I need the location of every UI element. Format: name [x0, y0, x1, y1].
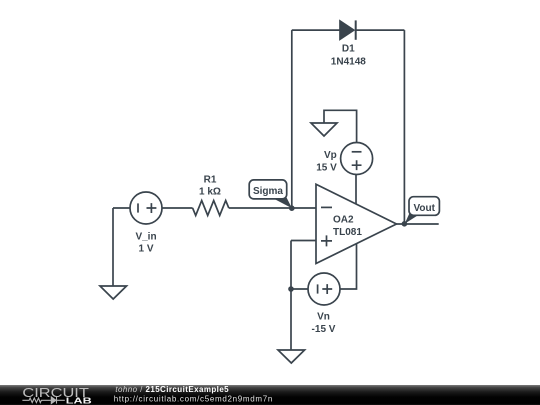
- wire left of V_in: [113, 207, 130, 209]
- wire Vp top to ground bend: [324, 110, 357, 142]
- wire diode to right branch: [356, 29, 405, 31]
- svg-text:TL081: TL081: [333, 227, 362, 238]
- svg-text:15 V: 15 V: [316, 162, 337, 173]
- wire op-amp noninverting input: [291, 240, 316, 242]
- wire op-amp V+ pin to Vp: [355, 175, 357, 205]
- svg-text:LAB: LAB: [66, 396, 92, 405]
- node junction dot at Vn: [288, 286, 294, 292]
- voltage source Vp: [316, 143, 372, 175]
- wire op-amp V- pin down: [340, 244, 357, 289]
- ground for Vp: [311, 123, 337, 136]
- wire V_in to R1: [162, 207, 193, 209]
- svg-text:Sigma: Sigma: [253, 186, 283, 197]
- wire R1 to op-amp inverting input: [229, 207, 316, 209]
- resistor R1: [193, 174, 229, 215]
- ground for V_in: [100, 286, 127, 299]
- wire top left to diode: [292, 29, 340, 31]
- wire V_in to ground: [112, 208, 114, 286]
- diode D1: [331, 20, 366, 67]
- wire right branch down to output node: [403, 30, 405, 224]
- voltage source Vn: [308, 273, 340, 335]
- svg-text:D1: D1: [342, 43, 355, 54]
- svg-text:R1: R1: [204, 174, 217, 185]
- svg-text:Vout: Vout: [413, 203, 435, 214]
- svg-text:1N4148: 1N4148: [331, 56, 366, 67]
- op-amp U1 OA2: [316, 184, 397, 263]
- footer bar: [0, 385, 540, 405]
- svg-text:1 kΩ: 1 kΩ: [199, 187, 221, 198]
- node Vout junction dot: [402, 221, 408, 227]
- svg-text:tohno / 215CircuitExample5: tohno / 215CircuitExample5: [115, 385, 229, 394]
- wire op-amp output: [397, 223, 439, 225]
- wire node Sigma up to diode loop: [291, 30, 293, 208]
- svg-text:V_in: V_in: [135, 231, 156, 242]
- node Sigma flag: [249, 180, 292, 208]
- node Vout flag: [405, 197, 440, 224]
- svg-text:Vp: Vp: [324, 150, 337, 161]
- node Sigma junction dot: [289, 205, 295, 211]
- svg-text:Vn: Vn: [317, 312, 330, 323]
- wire noninverting branch down to ground: [290, 241, 292, 351]
- CircuitLab logo resistor-diode glyph: [22, 397, 64, 404]
- svg-text:OA2: OA2: [333, 215, 354, 226]
- ground bottom: [278, 350, 305, 363]
- svg-text:1 V: 1 V: [138, 244, 153, 255]
- svg-text:-15 V: -15 V: [312, 324, 336, 335]
- svg-text:http://circuitlab.com/c5emd2n9: http://circuitlab.com/c5emd2n9mdm7n: [114, 395, 273, 404]
- wire junction to Vn left terminal: [291, 288, 308, 290]
- voltage source V_in: [130, 192, 162, 255]
